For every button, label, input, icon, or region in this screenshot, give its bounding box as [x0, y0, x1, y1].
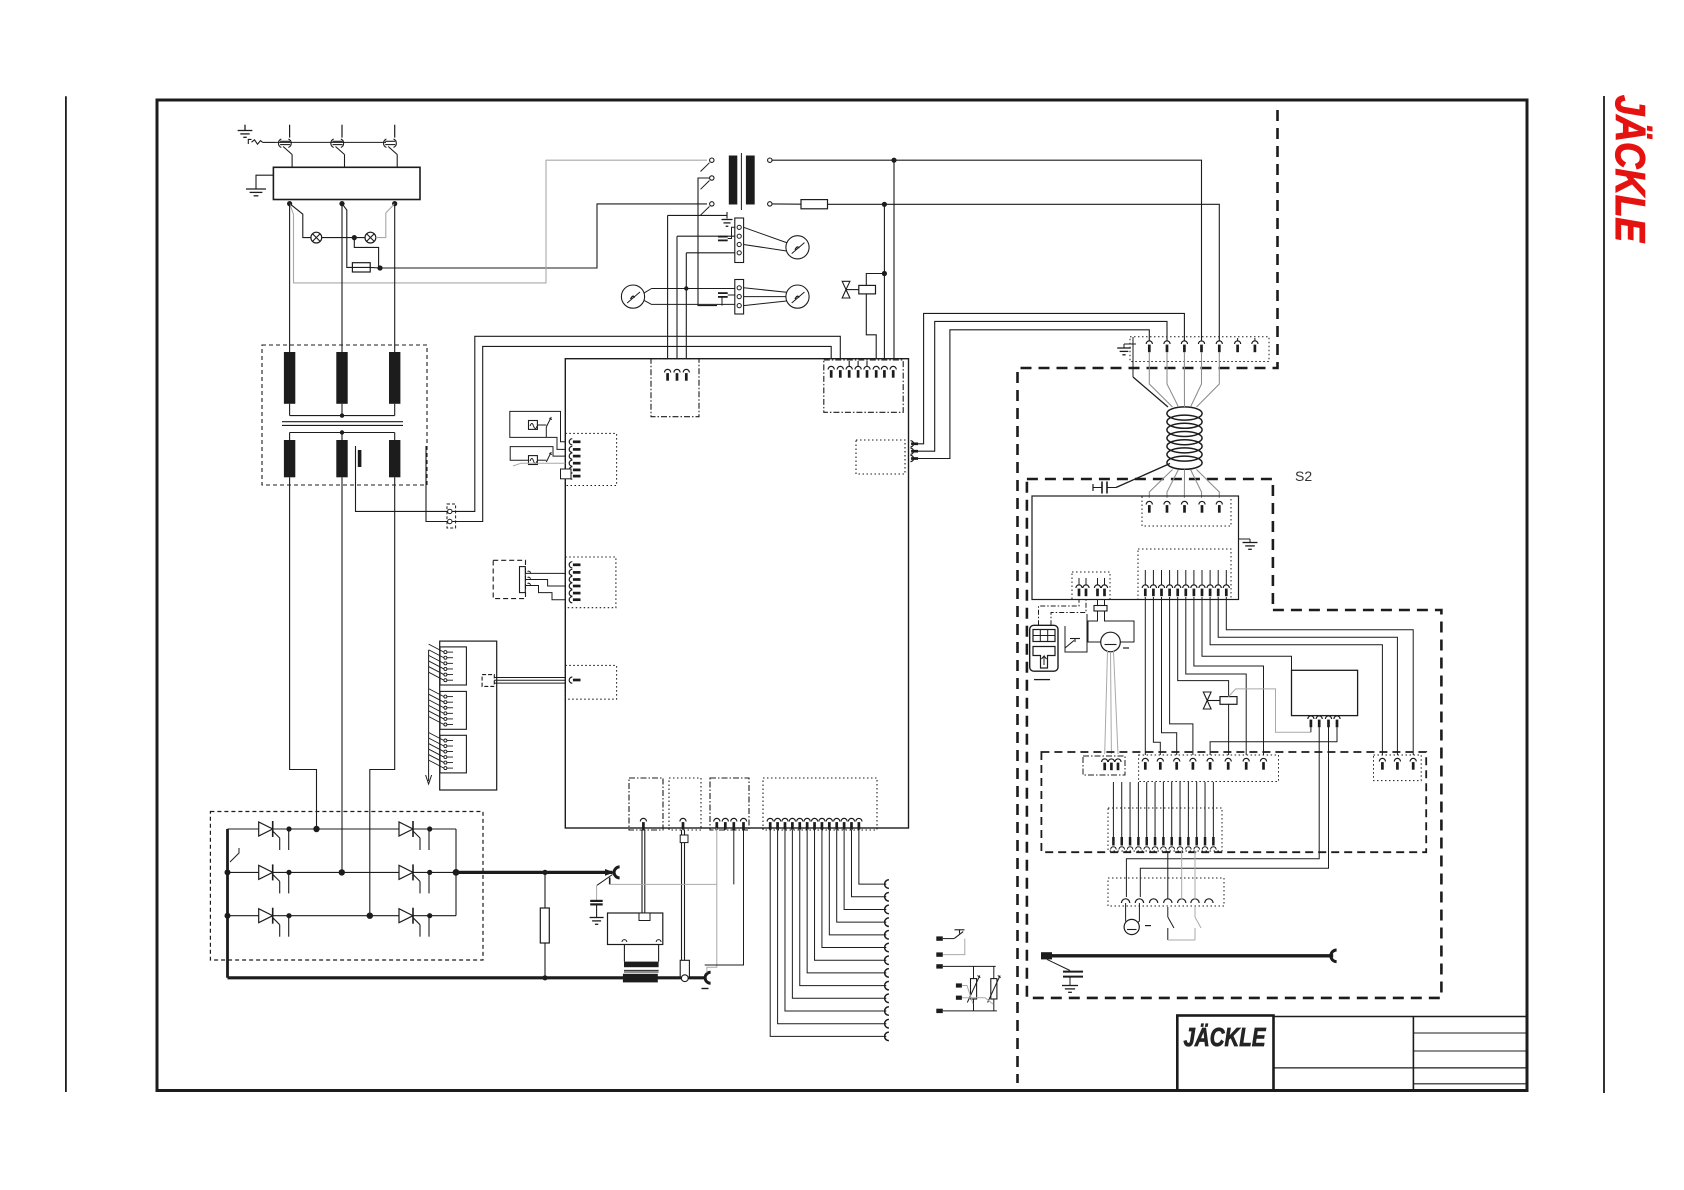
sheet left border line [65, 96, 67, 1092]
pad d [956, 983, 962, 987]
wire X31 to transducer [681, 830, 683, 960]
thermistor R3 [991, 979, 997, 999]
title block table [1274, 1016, 1527, 1018]
valve Y2 solenoid [1207, 700, 1220, 702]
A1-X33 pin [767, 818, 773, 821]
wire lamp junction [322, 237, 365, 239]
A1-X11 pin [837, 366, 843, 369]
T2 switch levers [701, 163, 710, 172]
connector A1-X31 [669, 778, 701, 830]
interference suppressor Z3 [529, 456, 538, 465]
circuit breaker Q1 pole 1 [289, 125, 291, 138]
X16 socket [1149, 899, 1157, 903]
gauge P1 [786, 236, 809, 259]
A1-X11 pin [881, 366, 887, 369]
T1 tap marks [339, 441, 345, 445]
T1 tap winding [358, 450, 362, 467]
output bus plus [456, 871, 613, 874]
wire junction down pin8 [893, 160, 895, 368]
A1-X11 pin [855, 366, 861, 369]
feeder strip X6 [1142, 496, 1231, 526]
A1-X32 pin [740, 818, 746, 821]
wire X30 to shunt [641, 830, 643, 913]
thermistor R2 [971, 979, 977, 999]
X8 pin [1085, 578, 1087, 585]
bridge box V1 [210, 812, 483, 961]
X7 pin [1161, 570, 1163, 585]
X15 pins [1112, 782, 1114, 837]
A3 pin [1334, 716, 1340, 719]
driver block K1 [440, 641, 497, 790]
svg-text:S2: S2 [1295, 468, 1312, 484]
A2 strip X7 [1138, 549, 1231, 600]
wire X12-2 to X1-2 [918, 321, 1167, 451]
pendant cable [1039, 600, 1080, 626]
A2 ground [1239, 538, 1251, 540]
X1 ground [1124, 343, 1136, 345]
A1-X33 pin [789, 818, 795, 821]
HF unit T3 [608, 913, 663, 945]
fan to gauge P1 [744, 227, 787, 242]
K1 harness bus [428, 650, 430, 781]
X14 pin [1394, 758, 1400, 761]
bridge lever [230, 848, 239, 862]
interference suppressor Z2 [529, 421, 538, 430]
pad f [936, 1009, 943, 1013]
output switch lever [597, 875, 613, 886]
wire A3-2 to socket1 [1126, 727, 1319, 897]
resistor R1 leads [544, 872, 546, 908]
snubber capacitor C4 [596, 885, 598, 901]
X7 pin [1225, 570, 1227, 585]
wire X5 to K-block pin1 [452, 346, 831, 521]
output terminal minus [705, 972, 711, 983]
T3 winding bar [624, 962, 659, 968]
fuse F1 [352, 263, 370, 272]
node fuse output [377, 265, 382, 270]
svg-text:JÄCKLE: JÄCKLE [1184, 1022, 1267, 1052]
output terminal plus [605, 869, 614, 876]
X13 pin [1190, 758, 1196, 761]
node L2 [339, 201, 344, 206]
X16 socket [1164, 899, 1172, 903]
A1-X20 pin [569, 473, 572, 479]
A1-X11 pin [828, 366, 834, 369]
capacitor C1 [718, 236, 728, 238]
drawing frame [157, 100, 1527, 1091]
svg-text:JÄCKLE: JÄCKLE [1607, 95, 1654, 244]
bridge dots [286, 870, 291, 875]
X1 pin [1198, 341, 1204, 344]
A1-X33 pin [797, 818, 803, 821]
A1-X21 pin [569, 562, 572, 568]
X13 pin [1157, 758, 1163, 761]
bridge left bus [226, 829, 229, 978]
A1-X21 pin [569, 590, 572, 596]
torch connector [1331, 950, 1337, 962]
T2 core [740, 153, 742, 210]
motor M2 [1124, 919, 1139, 934]
choke harness [1149, 353, 1172, 408]
T2 secondary winding [746, 156, 755, 205]
motor M1 [1101, 632, 1121, 652]
X1 pin [1146, 341, 1152, 344]
pot pin [528, 583, 531, 585]
surge switch F0 [248, 139, 251, 144]
A1-X30 pin [640, 818, 646, 821]
X7 pin [1201, 570, 1203, 585]
wire X32-4 [705, 830, 744, 965]
transducer small box [680, 835, 688, 843]
X7 pin [1193, 570, 1195, 585]
Y2 control wire gray [1229, 689, 1311, 732]
connector A1-X32 [710, 778, 749, 830]
wire X7-10 [1218, 597, 1397, 755]
connector row X13 [1139, 755, 1279, 782]
fuse F2 [801, 200, 828, 209]
thyristor left [259, 822, 273, 836]
circuit breaker Q1 pole 3 [394, 125, 396, 138]
torch switch loop [1065, 614, 1087, 652]
wire L3 down [394, 204, 396, 352]
wire X7-4 [1170, 597, 1193, 755]
A3 pin [1308, 716, 1314, 719]
cabinet boundary [1018, 110, 1278, 1083]
output bus minus [228, 976, 706, 979]
A1-X11 pin [873, 366, 879, 369]
X1 pin [1181, 341, 1187, 344]
wire X12-3 to X1-1 [918, 330, 1149, 459]
A1-X12 pin [911, 441, 914, 447]
fan to gauge P3 [744, 288, 787, 292]
A1-X22 pin [569, 677, 572, 683]
X16 socket [1205, 899, 1213, 903]
T3 legs [623, 945, 625, 962]
X9 pin [1115, 759, 1121, 762]
terminal strip X1 [1130, 337, 1269, 362]
bridge row 2 [228, 871, 457, 873]
wire L1 down [289, 204, 291, 352]
A1-X33 pin [774, 818, 780, 821]
thyristor left [259, 909, 273, 923]
connector X14 [1374, 755, 1422, 781]
wire L2 down [341, 204, 343, 352]
pot pin [528, 577, 531, 579]
K1 gate group 1 [440, 647, 466, 685]
wire X3-4 left [686, 252, 735, 254]
A1-X32 pin [714, 818, 720, 821]
X7 pin [1169, 570, 1171, 585]
mains filter Z1 [273, 167, 420, 199]
X16 socket [1191, 899, 1199, 903]
connector A1-X33 [763, 778, 877, 830]
wire A3-3 to socket2 [1140, 727, 1328, 897]
A1-X11 stub pins [848, 361, 850, 366]
wire L1 to lamp H1 [290, 204, 311, 238]
wire X5 to K-block pin2 [452, 336, 840, 511]
pendant S4 [1030, 625, 1058, 671]
M1 wiring [1097, 600, 1099, 606]
A1-X20 pin [569, 446, 572, 452]
A1-X33 pin [834, 818, 840, 821]
bridge row 3 [228, 915, 457, 917]
A1-X11 pin [890, 366, 896, 369]
A1-X32 pin [731, 818, 737, 821]
torch cap C6 [1047, 959, 1070, 970]
lamp H2 [365, 232, 376, 243]
A1-X20 pin [569, 467, 572, 473]
X1 pin [1216, 341, 1222, 344]
gauge P3 [786, 285, 809, 308]
wire Y1 to node [866, 274, 884, 286]
X9 pin [1102, 759, 1108, 762]
wire lamp H2 to L3 (gray) [376, 204, 395, 238]
X16 socket [1178, 899, 1186, 903]
connector A1-X11 [824, 360, 903, 412]
potentiometer box [493, 560, 525, 598]
X14 pin [1410, 758, 1416, 761]
valve Y1 solenoid [846, 289, 859, 291]
terminal strip X4 (row2) [735, 280, 744, 315]
breaker tie bar [276, 141, 387, 143]
X14 pin [1379, 758, 1385, 761]
wire F2 to X1 pin5 [828, 204, 1220, 341]
A3 pin [1325, 716, 1331, 719]
wire X32-3 [733, 830, 735, 884]
wire junction to fuse node [354, 238, 378, 268]
X6 pin [1181, 501, 1187, 504]
feeder PCB A2 [1032, 496, 1239, 600]
wire X7-1 [1144, 597, 1146, 755]
T1 secondary winding 2 [336, 440, 347, 477]
thyristor right [399, 822, 413, 836]
connector row X15 [1108, 808, 1222, 851]
A1-X10 pin [665, 369, 671, 372]
thyristor left [259, 865, 273, 879]
pad e [956, 996, 962, 1000]
choke L1 [1167, 407, 1202, 420]
ground PE (top left) [244, 125, 246, 131]
pad b [936, 952, 943, 956]
sheet right border line [1603, 96, 1605, 1093]
wire X3 top left [668, 214, 727, 216]
T3 core lines [624, 969, 659, 971]
A1-X32 pin [722, 818, 728, 821]
X8 pin [1078, 578, 1080, 585]
bridge dots [286, 913, 291, 918]
A1-X10 pin [674, 369, 680, 372]
A1-X33 pin [841, 818, 847, 821]
A2 strip X8 [1072, 572, 1110, 600]
gas control unit A3 [1292, 670, 1358, 715]
X7 pin [1177, 570, 1179, 585]
K1 gate group 2 [440, 691, 466, 729]
wire T1 sec 3 to bridge [370, 477, 395, 915]
torch cable [1052, 954, 1333, 957]
thermistor wiring gray [962, 986, 973, 1005]
X7 pin [1185, 570, 1187, 585]
lamp H1 [311, 232, 322, 243]
T1 secondary winding 1 [284, 440, 295, 477]
X9 pin [1108, 759, 1114, 762]
X13 pin [1174, 758, 1180, 761]
wire A3-4 to X7-5 [1210, 727, 1337, 755]
Z3 lever [537, 459, 546, 461]
wire X15 to X16 [1167, 851, 1169, 899]
Z2 wiring [510, 411, 566, 449]
A1-X31 pin [680, 818, 686, 821]
A1-X20 pin [569, 460, 572, 466]
M1 tacho leads [1105, 651, 1108, 754]
connector A1-X10 [651, 359, 699, 417]
X6 pin [1199, 501, 1205, 504]
T1 primary winding 3 [389, 352, 400, 404]
X8 pin [1097, 578, 1099, 585]
A1-X21 pin [569, 569, 572, 575]
wire junction down pin7 [883, 204, 885, 368]
X8 pin [1104, 578, 1106, 585]
capacitor C5 [1092, 484, 1094, 491]
X6 pin [1146, 501, 1152, 504]
A1-X33 pin [826, 818, 832, 821]
X13 pin [1207, 758, 1213, 761]
potentiometer connector [520, 567, 526, 593]
wire X3 to A1 pin2 [676, 236, 678, 370]
X1 pin [1235, 341, 1241, 344]
wire L1 sense (gray) to T2 top [290, 160, 707, 283]
resistor R1 [540, 908, 549, 943]
title block logo box [1177, 1016, 1273, 1091]
X16 socket [1135, 899, 1143, 903]
connector A1-X21 [565, 557, 616, 608]
T1 tap wire [356, 446, 448, 511]
bridge dots [286, 826, 291, 831]
T1 aux tap wire [426, 446, 447, 522]
wire X7-2 [1153, 597, 1160, 755]
thyristor right [399, 909, 413, 923]
circuit breaker Q1 pole 2 [341, 125, 343, 138]
thermal switch S3 [943, 938, 954, 940]
X13 pin [1142, 758, 1148, 761]
pot wiring [525, 572, 565, 574]
connector A1-X20 [565, 433, 616, 485]
current transducer B1 [680, 960, 689, 977]
T2 left terminals [710, 158, 714, 162]
A1-X33 pin [819, 818, 825, 821]
pad a [936, 936, 943, 940]
thermistor wiring top [943, 965, 996, 967]
choke ground lead [1133, 377, 1168, 407]
hose P2 to X4 [644, 289, 651, 293]
wire X3-2 left [677, 235, 735, 237]
gas valve Y1 [842, 281, 850, 289]
K1 ribbon connector [482, 675, 494, 687]
K1 gate group 3 [440, 735, 466, 773]
pot pin [528, 571, 531, 573]
A1 aux small box [561, 469, 572, 479]
X6 pin [1164, 501, 1170, 504]
switch contacts S5 [1167, 907, 1169, 917]
T1 secondary winding 3 [389, 440, 400, 477]
A1-X11 pin [846, 366, 852, 369]
Z3 wiring [510, 447, 565, 461]
A1-X12 pin [911, 455, 914, 461]
wire feed case S2 boundary [1027, 479, 1273, 610]
A1-X33 pin [782, 818, 788, 821]
A1-X10 pin [683, 369, 689, 372]
wire Y1 to pin6 [866, 294, 876, 368]
X1 stub pins [1237, 338, 1239, 341]
wire X7-5 (valve) [1178, 597, 1229, 755]
A1-X12 pin [911, 448, 914, 454]
X7 pin [1217, 570, 1219, 585]
wire T2 bottom to fuse F2 [772, 203, 801, 205]
A1-X11 pin [864, 366, 870, 369]
socket row X16 [1108, 878, 1224, 906]
T2 tap wire [698, 178, 717, 306]
wire X7-6 [1186, 597, 1246, 755]
X1 ground lead [1132, 337, 1134, 377]
transformer T1 box [262, 345, 427, 485]
capacitor C2 [718, 292, 728, 294]
T3 secondary bar [623, 974, 658, 983]
T1 primary winding 1 [284, 352, 295, 404]
A3 pin [1316, 716, 1322, 719]
X7 pin [1209, 570, 1211, 585]
wire X3 to A1 pin3 [685, 253, 687, 370]
feeder compartment box [1041, 752, 1426, 852]
wire X7-8 [1202, 597, 1292, 670]
connector X5 (2 pole) [447, 504, 456, 528]
bridge nodes [313, 826, 319, 832]
wire X7-3 [1162, 597, 1177, 755]
thyristor right [399, 865, 413, 879]
T1 secondary common [290, 432, 395, 434]
ground PE filter [256, 175, 273, 189]
wire T2 top to X1 pin4 [772, 160, 1202, 341]
connector A1-X12 [856, 440, 905, 474]
connector X9 [1083, 756, 1125, 775]
thermistor wiring bottom [943, 1010, 997, 1012]
A1-X33 pin [848, 818, 854, 821]
node L1 [287, 201, 292, 206]
Z2 lever [537, 424, 546, 426]
T2 primary winding [729, 156, 738, 205]
A1-X33 pin [804, 818, 810, 821]
sense wire gray [610, 883, 717, 885]
shield ground (row1) [726, 212, 728, 219]
A1-X20 pin [569, 453, 572, 459]
A1-X21 pin [569, 597, 572, 603]
bridge row 1 [228, 828, 457, 830]
X13 pin [1260, 758, 1266, 761]
X16 socket [1121, 899, 1129, 903]
wire X3 to A1 pin1 [667, 215, 669, 370]
X33 harness to rear panel [770, 830, 886, 1036]
ribbon to A1-X22 [494, 677, 565, 679]
motor M2 wiring [1126, 903, 1128, 925]
A1-X20 pin [569, 439, 572, 445]
T1 core [282, 421, 403, 423]
A1-X21 pin [569, 583, 572, 589]
terminal strip X3 (row1) [735, 218, 744, 263]
X13 pin [1243, 758, 1249, 761]
X7 pin [1144, 570, 1146, 585]
gauge P2 [621, 285, 644, 308]
wire L2 to fuse F1 [342, 204, 352, 268]
A1-X33 pin [811, 818, 817, 821]
node L3 [392, 201, 397, 206]
